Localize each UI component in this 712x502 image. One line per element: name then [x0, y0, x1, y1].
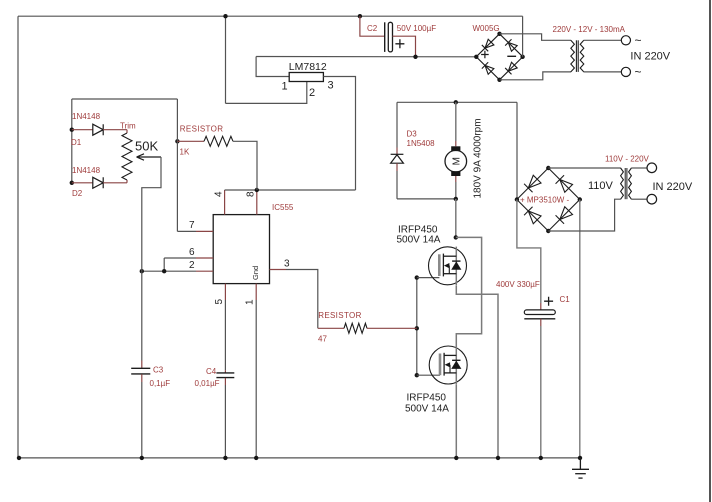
lead 555 pin3 [270, 269, 287, 271]
lead pot top [126, 130, 128, 133]
motor M1 body [445, 150, 467, 172]
svg-text:1N5408: 1N5408 [407, 139, 436, 148]
wire 7812 pin2 to gnd [226, 81, 307, 103]
node C3 ground [140, 456, 144, 460]
wire Q2 source to ground [455, 384, 457, 458]
lead C3 bottom [141, 374, 143, 382]
wire T2 secondary bottom [631, 198, 647, 200]
transistor Q2 channel bar [443, 353, 445, 376]
lead D2 anode [72, 182, 93, 184]
node gate Q2 [415, 373, 419, 377]
svg-text:Gnd: Gnd [251, 266, 260, 280]
wire divider top rail [72, 98, 178, 100]
transistor Q1 source stub [443, 273, 456, 275]
svg-text:IN 220V: IN 220V [630, 51, 670, 63]
capacitor C4 [216, 372, 234, 374]
resistor R3 47 zigzag [344, 323, 367, 333]
wire BR2 minus to ground [579, 200, 581, 458]
lead 555 pin2 [196, 270, 213, 272]
wire to Q2 drain staircase [456, 237, 482, 346]
lead C1 top [540, 303, 542, 310]
wire top ground rail [18, 15, 523, 17]
lead 555 pin7 [196, 230, 213, 232]
capacitor C2 negative plate [384, 22, 386, 52]
wire top rail to BR1 minus [522, 16, 524, 57]
ground symbol [572, 458, 589, 478]
resistor R1 1K zigzag [204, 136, 233, 146]
svg-text:8: 8 [246, 191, 257, 197]
node pin8 Vcc [255, 188, 259, 192]
transistor Q2 body stub arrow [445, 362, 451, 367]
svg-text:500V 14A: 500V 14A [405, 404, 449, 415]
wire D-branch left vertical [71, 99, 73, 183]
svg-text:C3: C3 [153, 366, 164, 375]
svg-text:1: 1 [245, 299, 256, 305]
svg-text:RESISTOR: RESISTOR [318, 311, 362, 320]
wire pin5 to C4 [224, 300, 226, 370]
wire pin1 to ground [255, 300, 257, 458]
node ground rail end [578, 456, 582, 460]
wire Q1 source to ground [456, 285, 498, 458]
capacitor C2 positive plate [388, 22, 392, 52]
transistor Q2 gate bar [439, 354, 442, 376]
wire D3 branch bottom [396, 171, 398, 199]
transistor Q1 drain-source through line [455, 247, 457, 285]
svg-text:400V 330µF: 400V 330µF [496, 280, 540, 289]
node gate bus resistor [415, 326, 419, 330]
plus sign C2 [395, 39, 404, 48]
wire BR2 top to T2 [548, 167, 621, 169]
transistor Q1 channel bar [442, 254, 444, 277]
wire pin3 to gate resistor [286, 270, 318, 329]
screen right border [709, 0, 711, 502]
terminal T2 top [647, 163, 657, 173]
lead 555 pin6 [196, 257, 213, 259]
wire C2 positive lead [393, 36, 416, 57]
svg-text:2: 2 [309, 87, 315, 99]
terminal T1 top [621, 36, 630, 45]
lead Q1 gate [417, 277, 440, 279]
node motor top [454, 100, 458, 104]
svg-text:220V - 12V - 130mA: 220V - 12V - 130mA [553, 25, 626, 34]
minus sign BR1 [507, 55, 516, 57]
lead D2 cathode [103, 182, 127, 184]
wire C3 to ground [141, 382, 143, 458]
svg-text:IC555: IC555 [272, 203, 294, 212]
diode D3 1N5408 [391, 155, 404, 163]
wire BR2 plus to C1 [517, 200, 541, 304]
transformer T2 core [624, 168, 626, 199]
wire pin2 [142, 270, 196, 272]
node D1 anode [70, 128, 74, 132]
lead D1 anode [72, 129, 93, 131]
wire gate bus [416, 278, 418, 376]
lead pot bottom [126, 180, 128, 183]
svg-text:C4: C4 [206, 367, 217, 376]
wire bottom ground rail [19, 457, 581, 459]
diode BR1 upper-left [482, 39, 494, 51]
svg-text:D3: D3 [407, 130, 418, 139]
wire R1 to Vcc [233, 141, 257, 190]
svg-text:~: ~ [635, 34, 642, 48]
node C2 to +12V wire [413, 55, 417, 59]
node C1 ground [539, 456, 543, 460]
svg-text:LM7812: LM7812 [289, 61, 327, 73]
lead R3 right [367, 327, 417, 329]
lead 555 pin8 [256, 190, 258, 215]
svg-text:C2: C2 [367, 24, 378, 33]
potentiometer R2 wiper arrow [137, 154, 162, 160]
lead motor bottom [455, 176, 457, 182]
potentiometer R2 50K zigzag [122, 133, 132, 180]
transformer T1 secondary coil [580, 40, 584, 72]
wire pin6 [164, 257, 196, 259]
wire C3 top [141, 271, 143, 360]
node motor bottom [454, 197, 458, 201]
wire C4 to ground [224, 385, 226, 458]
wire T1 secondary top [584, 39, 622, 41]
node pin2 wiper [140, 269, 144, 273]
node BR1 left [474, 55, 478, 59]
wire D3 branch down [396, 102, 398, 147]
diode BR1 upper-right [505, 39, 517, 51]
transistor Q2 body diode [452, 362, 460, 369]
node BR1 right [520, 55, 524, 59]
node bottom-left corner junction [17, 456, 21, 460]
bridge rectifier BR2 MP3510W outline [517, 168, 580, 231]
IC U1 555 body [213, 215, 269, 284]
svg-text:3: 3 [284, 258, 290, 269]
node Q1 source ground [496, 456, 500, 460]
wire C1 to ground [540, 326, 542, 458]
wire motor box top right [516, 102, 518, 199]
svg-text:1K: 1K [180, 147, 190, 156]
capacitor C1 positive plate [524, 310, 555, 315]
node pin1 ground [254, 456, 258, 460]
lead motor top [455, 141, 457, 146]
lead 555 pin4 [224, 190, 226, 215]
node top rail to 7812 gnd [223, 14, 227, 18]
node gate Q1 [415, 275, 419, 279]
svg-text:47: 47 [318, 335, 327, 344]
lead C3 top [141, 361, 143, 369]
svg-text:500V 14A: 500V 14A [397, 235, 441, 246]
wire BR1 top AC to T1 [500, 34, 572, 41]
svg-text:1: 1 [282, 81, 288, 93]
node BR2 top [546, 166, 550, 170]
capacitor C1 negative plate [524, 318, 555, 320]
svg-text:0,1µF: 0,1µF [150, 379, 171, 388]
lead Q2 gate [417, 374, 440, 376]
plus sign BR1 [481, 51, 489, 59]
transformer T2 primary coil [621, 168, 624, 199]
wire T1 secondary bottom [584, 71, 622, 73]
node C4 ground [223, 456, 227, 460]
node BR1 top [497, 32, 501, 36]
wire left ground side [17, 16, 19, 458]
svg-text:C1: C1 [560, 295, 571, 304]
node pin6-pin2 [162, 269, 166, 273]
terminal T2 bottom [647, 194, 657, 204]
diode BR2 upper-left [524, 175, 541, 192]
motor M1 top terminal [451, 146, 460, 151]
transistor Q1 body stub arrow [444, 263, 450, 268]
node drain split [454, 235, 458, 239]
wire BR1 bottom AC to T1 [500, 72, 572, 80]
svg-text:180V 9A 4000rpm: 180V 9A 4000rpm [473, 118, 484, 198]
svg-text:W005G: W005G [473, 24, 500, 33]
bridge rectifier BR1 W005G outline [476, 34, 523, 80]
diode BR1 lower-left [482, 62, 494, 74]
wire BR2 bottom to T2 [548, 199, 621, 231]
svg-text:IRFP450: IRFP450 [407, 393, 447, 404]
svg-text:50V 100µF: 50V 100µF [397, 24, 436, 33]
terminal T1 bottom [621, 67, 630, 76]
lead C1 bottom [540, 319, 542, 326]
wire +12V unregulated rail [256, 56, 476, 58]
svg-text:D2: D2 [72, 189, 83, 198]
capacitor C3 [131, 367, 150, 369]
wire Vcc pins 4-8 [225, 189, 356, 191]
wire motor bottom feed [455, 182, 457, 199]
lead D1 cathode [103, 129, 127, 131]
lead C4 bottom [224, 378, 226, 385]
node D2 anode [70, 181, 74, 185]
wire T2 secondary top [631, 167, 647, 169]
transformer T2 secondary coil [629, 168, 632, 199]
node Q2 source ground [454, 456, 458, 460]
svg-text:D1: D1 [71, 138, 82, 147]
transistor Q2 body circle [429, 346, 467, 384]
wire C2 negative lead [360, 16, 384, 36]
transistor Q2 source stub [444, 372, 456, 374]
transformer T1 primary coil [571, 40, 575, 72]
svg-text:IN 220V: IN 220V [653, 181, 693, 193]
svg-text:1N4148: 1N4148 [72, 112, 101, 121]
wire wiper to pin2 [142, 157, 161, 271]
node BR1 bottom [497, 78, 501, 82]
wire 7812 pin1 input [256, 57, 289, 77]
wire 7812 pin3 output [323, 77, 355, 191]
node BR2 right [578, 197, 582, 201]
svg-text:+ MP3510W -: + MP3510W - [520, 196, 569, 205]
lead 555 pin5 [224, 284, 226, 300]
svg-text:RESISTOR: RESISTOR [180, 124, 224, 133]
svg-text:3: 3 [328, 80, 334, 92]
wire 7812 gnd drop from top rail [225, 16, 227, 103]
lead R3 left [318, 327, 344, 329]
svg-text:110V: 110V [588, 180, 614, 192]
transistor Q2 drain stub [444, 354, 456, 356]
svg-text:6: 6 [189, 247, 195, 258]
diode BR2 upper-right [556, 175, 573, 192]
svg-text:110V - 220V: 110V - 220V [605, 155, 650, 164]
wire divider vertical [176, 99, 178, 231]
svg-text:M: M [452, 157, 463, 165]
motor M1 bottom terminal [451, 171, 460, 176]
transistor Q2 drain-source through line [455, 346, 457, 384]
node BR2 bottom [546, 229, 550, 233]
svg-text:50K: 50K [135, 139, 158, 154]
wire motor top feed [455, 102, 457, 141]
transistor Q1 body circle [429, 247, 467, 285]
svg-text:~: ~ [635, 65, 642, 79]
diode BR1 lower-right [505, 62, 517, 74]
lead D3 cathode [396, 148, 398, 155]
lead 555 pin1 [255, 284, 257, 300]
svg-text:7: 7 [189, 220, 195, 231]
svg-text:5: 5 [214, 299, 225, 305]
wire motor to FET drains [455, 199, 457, 238]
transistor Q1 drain stub [443, 255, 456, 257]
wire D3 to motor node [397, 198, 456, 200]
svg-text:4: 4 [214, 191, 225, 197]
diode BR2 lower-right [556, 206, 573, 223]
svg-text:0,01µF: 0,01µF [195, 379, 220, 388]
node BR2 left [515, 197, 519, 201]
transformer T1 core [575, 40, 577, 72]
node top rail C2 tap [358, 14, 362, 18]
diode D1 1N4148 [93, 124, 103, 135]
svg-text:2: 2 [189, 260, 195, 271]
svg-text:1N4148: 1N4148 [72, 166, 101, 175]
plus sign C1 [544, 297, 553, 306]
svg-text:Trim: Trim [120, 121, 136, 130]
transistor Q1 body diode [452, 262, 460, 269]
lead C4 top [224, 370, 226, 372]
wire pin7 to divider [177, 230, 196, 232]
wire pin6 to pin2 [163, 258, 165, 271]
wire motor box top [397, 101, 517, 103]
lead D3 anode [396, 163, 398, 171]
node divider top [175, 139, 179, 143]
transistor Q1 gate bar [438, 254, 441, 276]
diode BR2 lower-left [524, 207, 541, 224]
regulator U2 LM7812 body [289, 73, 323, 82]
diode D2 1N4148 [93, 177, 103, 188]
lead R1 left [177, 140, 204, 142]
